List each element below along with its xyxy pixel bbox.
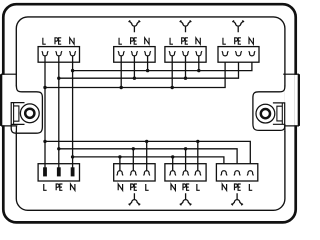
enclosure inner lid border (16, 17, 285, 210)
left flange recess erase (0, 75, 17, 131)
bottom terminal box 4 (216, 164, 257, 181)
bottom box3 labels N PE L (171, 184, 200, 190)
wire top box3 PE (185, 56, 187, 78)
recess bottom tick and lid resume (285, 126, 299, 132)
lid jog and under-lug channel (253, 86, 285, 131)
bottom box1 labels L PE N (44, 184, 75, 190)
lug tab (11, 103, 24, 125)
top box1 labels L PE N (43, 38, 74, 44)
lower bus N (73, 157, 224, 164)
wire bottom box3 L (197, 141, 199, 170)
wire N feed (top box1 to bottom box1) (72, 56, 74, 168)
top box2 clamp terminals (118, 51, 151, 56)
top terminal box 4 (218, 47, 259, 63)
outlet symbol above top box4 (232, 20, 244, 32)
top box1 clamp terminals (42, 51, 76, 56)
top terminal box 1 (38, 47, 79, 63)
bottom terminal box 2 (114, 164, 155, 181)
bottom box2 clamp terminals (117, 171, 150, 176)
wire bottom box3 N (172, 157, 174, 171)
lug tab (273, 103, 285, 124)
bottom box4 clamp terminals (221, 171, 254, 176)
flange edge bar (0, 74, 2, 126)
junction dots upper L bus (43, 86, 174, 89)
lug outer circle (256, 104, 275, 123)
lid jog and under-lug channel (11, 86, 42, 134)
wire top box2 N (147, 56, 149, 71)
outlet symbol below bottom box4 (231, 193, 243, 205)
wire top box3 N (198, 56, 200, 71)
outlet symbol below bottom box3 (180, 193, 192, 205)
wire bottom box2 PE (132, 149, 134, 171)
outlet symbol above top box2 (129, 20, 141, 32)
right flange recess erase (284, 75, 300, 131)
junction dots lower L bus (43, 140, 199, 143)
top terminal box 3 (165, 47, 206, 63)
top box2 labels L PE N (119, 38, 149, 44)
bottom box3 clamp terminals (170, 171, 201, 176)
wire top box3 L (171, 56, 173, 88)
lug screw ring (25, 109, 34, 118)
wire bottom box2 L (146, 141, 148, 170)
lug outer circle (20, 104, 39, 123)
lug bracket (277, 106, 282, 121)
wire bottom box2 N (119, 157, 121, 171)
bottom box4 labels N PE L (222, 184, 252, 190)
lower bus PE (59, 149, 237, 164)
junction dots upper N bus (71, 69, 201, 72)
junction dots upper PE bus (57, 77, 187, 80)
left mounting flange (0, 74, 42, 133)
wire bottom box3 PE (185, 149, 187, 171)
top terminal box 2 (114, 47, 155, 63)
flange edge bar (298, 74, 300, 126)
wire L feed (top box1 to bottom box1) (44, 56, 46, 168)
recess top tick (283, 73, 299, 75)
top box4 clamp terminals (222, 51, 255, 56)
wire PE feed (top box1 to bottom box1) (58, 56, 60, 168)
junction dots lower PE bus (57, 147, 187, 150)
upper bus PE (59, 62, 239, 78)
right mounting flange (253, 74, 300, 132)
bottom box1 busbar terminals (43, 167, 74, 176)
top box3 clamp terminals (169, 51, 202, 56)
outlet symbol below bottom box2 (129, 193, 141, 205)
bottom box2 labels N PE L (118, 184, 148, 190)
top box4 labels L PE N (223, 38, 253, 44)
lug bracket (14, 106, 19, 121)
lug screw ring (261, 109, 270, 118)
lug tab inner edge (281, 103, 283, 124)
wire top box2 L (120, 56, 122, 88)
bottom terminal box 3 (165, 164, 206, 181)
bottom feed box 1 (38, 164, 79, 181)
outlet symbol above top box3 (180, 20, 192, 32)
lug tab inner edge (13, 103, 15, 125)
upper bus N (73, 62, 252, 70)
recess bottom tick and lid resume (1, 126, 17, 132)
wire top box2 PE (133, 56, 135, 78)
recess top tick (1, 73, 17, 75)
lower bus L (45, 141, 250, 163)
upper bus L (45, 62, 225, 87)
top box3 labels L PE N (170, 38, 200, 44)
junction dots lower N bus (71, 155, 174, 158)
